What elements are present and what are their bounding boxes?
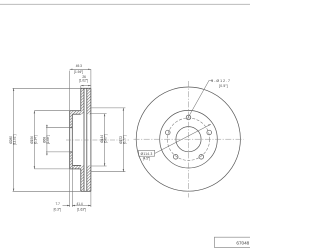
svg-text:[1.02″]: [1.02″] xyxy=(79,78,88,82)
ext O172 bottom xyxy=(91,171,126,173)
dim 26 line xyxy=(81,85,91,87)
hat inner bottom xyxy=(72,164,81,166)
hat inner top xyxy=(72,113,81,115)
bore bottom edge xyxy=(70,151,73,153)
ring left face upper xyxy=(80,88,82,110)
hatch hat web upper xyxy=(72,111,84,115)
hatch left plate lower xyxy=(81,169,84,191)
vent gap left edge xyxy=(83,88,85,191)
border top line xyxy=(0,3,250,5)
bolt circle dashed xyxy=(167,118,209,160)
ext O144 top xyxy=(91,113,107,115)
crosshair vertical xyxy=(188,81,190,198)
svg-text:7.7: 7.7 xyxy=(56,202,61,206)
hat outer top xyxy=(70,110,81,112)
hat outer bottom xyxy=(70,168,81,170)
svg-text:Ø172[6.77″]: Ø172[6.77″] xyxy=(119,135,127,144)
ring right face xyxy=(90,88,92,191)
hatch flange upper xyxy=(70,111,73,128)
label box O114.3 xyxy=(139,150,155,156)
crosshair horizontal xyxy=(134,138,244,140)
ext O172 top xyxy=(91,107,126,109)
ext 26 left xyxy=(80,86,82,89)
bolt hole lower-right xyxy=(199,155,204,160)
hatch right plate upper xyxy=(87,88,91,114)
hatch flange lower xyxy=(70,152,73,169)
svg-text:[0.5″]: [0.5″] xyxy=(219,84,228,88)
dim O280 line xyxy=(13,88,15,191)
flange left face xyxy=(69,111,71,169)
dim O144 line xyxy=(104,114,106,166)
bore top edge xyxy=(70,127,73,129)
svg-text:67048: 67048 xyxy=(236,241,249,246)
svg-text:41.4: 41.4 xyxy=(77,202,83,206)
bolt hole upper-right xyxy=(207,130,212,135)
dim O156 line xyxy=(33,111,35,169)
center bore xyxy=(176,127,201,152)
part number box xyxy=(214,237,251,247)
svg-text:49.3: 49.3 xyxy=(76,64,82,68)
ext 49.3/26 right xyxy=(90,69,92,88)
hatch right plate lower xyxy=(87,165,91,191)
svg-text:Ø114.3: Ø114.3 xyxy=(141,152,153,156)
svg-text:Ø156[6.14″]: Ø156[6.14″] xyxy=(30,135,38,144)
ext O68 bottom xyxy=(46,151,70,153)
ext O280 bottom xyxy=(13,190,81,192)
ring left face lower xyxy=(80,169,82,191)
ext O144 bottom xyxy=(91,165,107,167)
ext 7.7 left xyxy=(69,169,71,207)
dim O172 line xyxy=(122,108,124,172)
ext O156 top xyxy=(34,110,69,112)
bolt hole upper-left xyxy=(166,130,171,135)
bolt hole top xyxy=(186,115,191,120)
svg-text:[1.63″]: [1.63″] xyxy=(77,207,86,211)
outer circle xyxy=(136,87,240,191)
ext 49.3 left xyxy=(69,71,71,111)
flange right face xyxy=(71,114,73,165)
hatch hat web lower xyxy=(72,165,84,169)
dim O68 line xyxy=(46,125,48,156)
svg-text:[4.5″]: [4.5″] xyxy=(143,157,150,161)
dim 41.4 line xyxy=(72,205,91,207)
svg-text:[1.94″]: [1.94″] xyxy=(74,70,83,74)
ext O280 top xyxy=(13,87,81,89)
ring bottom edge xyxy=(81,190,91,192)
leader bolt holes xyxy=(187,81,213,120)
vent gap right edge xyxy=(86,88,88,191)
svg-text:Ø144[5.67″]: Ø144[5.67″] xyxy=(100,134,108,143)
dim 7.7 line xyxy=(63,205,70,207)
ext 41.4 left xyxy=(71,166,73,207)
bolt hole lower-left xyxy=(173,155,178,160)
ext bottom right xyxy=(90,191,92,207)
centerline section xyxy=(66,139,129,141)
ext O156 bottom xyxy=(34,168,69,170)
svg-text:5-Ø12.7: 5-Ø12.7 xyxy=(211,79,231,83)
svg-text:Ø280[11.02″]: Ø280[11.02″] xyxy=(9,134,17,145)
hatch left plate upper xyxy=(81,88,84,110)
leader O114.3 xyxy=(155,124,211,153)
ring top edge xyxy=(81,87,91,89)
ext O68 top xyxy=(46,127,70,129)
svg-text:[0.3″]: [0.3″] xyxy=(54,207,61,211)
dim 49.3 line xyxy=(70,68,91,70)
hat circle xyxy=(160,110,218,168)
